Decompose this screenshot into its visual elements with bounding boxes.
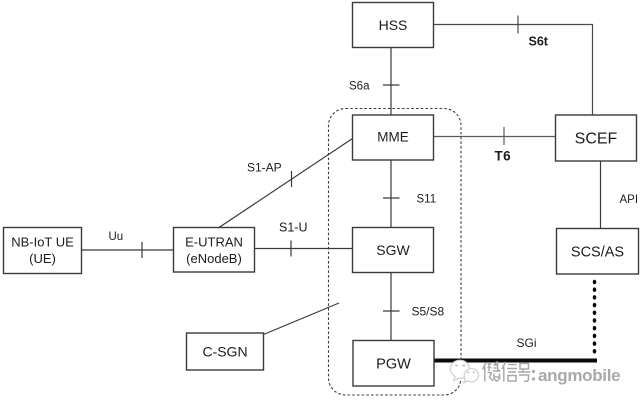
watermark wechat logo	[450, 360, 478, 382]
node SGW	[353, 228, 434, 273]
svg-text:API: API	[620, 194, 639, 206]
node SCS/AS	[557, 229, 639, 275]
svg-text:SCS/AS: SCS/AS	[571, 245, 624, 261]
微	[483, 362, 501, 382]
tick T6	[503, 127, 505, 145]
svg-text:SGi: SGi	[517, 336, 537, 350]
tick S6a	[383, 84, 400, 86]
watermark logo eyes	[455, 364, 475, 373]
svg-text:C-SGN: C-SGN	[202, 344, 247, 360]
信	[502, 362, 517, 382]
node HSS	[353, 3, 434, 48]
node MME	[353, 115, 434, 160]
wire SCEF-SCS/AS (API)	[600, 161, 602, 229]
watermark colon	[532, 370, 535, 381]
svg-text:S5/S8: S5/S8	[412, 305, 445, 319]
tick S5/S8	[383, 310, 400, 312]
wire UE-EUTRAN (Uu)	[82, 249, 174, 251]
svg-text:E-UTRAN: E-UTRAN	[185, 235, 243, 250]
node C-SGN	[187, 333, 264, 370]
dashed C-SGN group boundary	[329, 109, 462, 396]
tick Uu	[141, 242, 143, 258]
svg-text:S6t: S6t	[529, 35, 549, 49]
svg-text:(eNodeB): (eNodeB)	[186, 251, 242, 266]
wire EUTRAN-MME diagonal (S1-AP)	[219, 139, 353, 228]
tick S6t	[517, 16, 519, 34]
svg-text:PGW: PGW	[376, 357, 411, 373]
svg-text:T6: T6	[495, 149, 512, 164]
wire C-SGN pointer	[264, 303, 340, 335]
svg-text:S6a: S6a	[349, 81, 370, 93]
tick S11	[383, 197, 400, 199]
号	[518, 364, 531, 382]
tick S1-U	[290, 241, 292, 257]
svg-text:(UE): (UE)	[29, 251, 56, 266]
svg-text:S11: S11	[417, 194, 437, 206]
wire HSS-SCEF (S6t)	[434, 25, 593, 116]
wire HSS-MME (S6a)	[390, 48, 392, 116]
node E-UTRAN	[174, 228, 255, 273]
node PGW	[353, 341, 434, 387]
svg-text:S1-AP: S1-AP	[247, 161, 282, 175]
svg-text:HSS: HSS	[379, 17, 408, 33]
wire MME-SGW (S11)	[390, 160, 392, 228]
svg-text:S1-U: S1-U	[279, 221, 307, 235]
dotted line SCS/AS to SGi	[593, 280, 597, 354]
svg-text:SGW: SGW	[376, 242, 410, 258]
svg-text:angmobile: angmobile	[538, 366, 620, 385]
svg-text:SCEF: SCEF	[575, 131, 618, 148]
wire MME-SCEF (T6)	[434, 136, 556, 138]
wire SGW-PGW (S5/S8)	[390, 273, 392, 341]
svg-text:MME: MME	[377, 130, 409, 145]
watermark text 微信号	[483, 362, 531, 382]
wire EUTRAN-SGW (S1-U)	[255, 248, 353, 250]
tick S1-AP	[291, 171, 293, 187]
node SCEF	[556, 115, 637, 161]
wire PGW-SGi thick	[434, 359, 597, 363]
node NB-IoT UE	[4, 228, 82, 274]
svg-text:NB-IoT UE: NB-IoT UE	[11, 235, 74, 250]
svg-text:Uu: Uu	[109, 231, 124, 243]
